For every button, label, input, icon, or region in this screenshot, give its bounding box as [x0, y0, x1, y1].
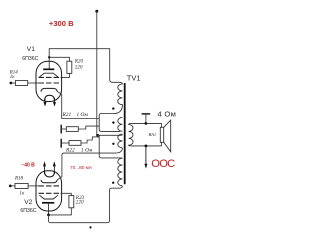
- node +300V terminal dot: [95, 10, 98, 13]
- wire R21 right jog up to around-path: [78, 126, 99, 129]
- wire R14 to V1 grid: [28, 82, 39, 84]
- svg-text:1к: 1к: [19, 192, 25, 197]
- tube V1 cathode arc: [41, 88, 57, 91]
- svg-text:TV1: TV1: [127, 74, 141, 83]
- wire secondary top into speaker: [161, 123, 163, 127]
- speaker BA1 horn: [164, 120, 171, 152]
- tube V2 anode plate bar: [42, 202, 54, 204]
- svg-text:R18: R18: [14, 177, 24, 182]
- wire V2 heater pin right with arrow: [53, 166, 55, 174]
- tube V2 heater arc: [45, 171, 55, 177]
- svg-text:1 Ом: 1 Ом: [77, 112, 89, 118]
- node phase dot S3: [112, 143, 114, 145]
- tube V1 beam-forming plates: [39, 73, 58, 77]
- wire R22 right staircase up to center-tap node: [81, 137, 99, 143]
- wire secondary bottom into speaker: [161, 142, 163, 146]
- wire vertical from center tap down to S4 entry: [99, 135, 122, 158]
- node V1 grid input terminal dot: [10, 82, 13, 85]
- wire +300V vertical down to junction: [96, 11, 98, 135]
- node junction dot secondary bottom: [145, 145, 148, 148]
- tube V2 screen grid g2 dashes: [39, 192, 59, 194]
- wire V1 heater pin left with arrow: [44, 98, 46, 103]
- transformer primary section S3: [118, 134, 123, 148]
- svg-text:ООС: ООС: [151, 158, 175, 170]
- node V2 grid input terminal dot: [9, 185, 12, 188]
- svg-text:220: 220: [76, 199, 84, 205]
- ground chassis bar (R22 left): [60, 139, 62, 148]
- svg-text:70...80 мА: 70...80 мА: [70, 165, 93, 170]
- node phase dot S4: [112, 182, 114, 184]
- wire V2 cathode lead to S3 bottom: [57, 148, 122, 180]
- node phase dot S1: [112, 107, 114, 109]
- wire V1 cathode lead to corner: [57, 91, 99, 118]
- tube V2 beam-forming plates: [39, 195, 58, 199]
- resistor R18: [15, 183, 28, 188]
- wire V2 heater pin left with arrow: [44, 166, 46, 174]
- wire bottom run to transformer S4 bottom: [49, 186, 123, 223]
- svg-text:ВА1: ВА1: [149, 132, 157, 137]
- svg-text:V1: V1: [27, 46, 35, 53]
- svg-text:1к: 1к: [10, 75, 16, 80]
- node stray junction dot below bottom wire: [89, 226, 91, 228]
- tube V2 envelope: [36, 171, 62, 211]
- wire R18 to V2 grid: [28, 185, 38, 187]
- svg-text:V2: V2: [24, 199, 32, 206]
- transformer TV1 core: [124, 83, 126, 184]
- wire V2 g2 to R23: [61, 193, 72, 195]
- tube V2 cathode arc: [41, 180, 57, 183]
- wire input to R18: [10, 185, 15, 187]
- wire OOC feedback stub with arrow: [145, 146, 147, 164]
- svg-text:R21: R21: [62, 112, 72, 118]
- transformer primary section S4 (V2 anode half): [118, 158, 123, 186]
- svg-text:220: 220: [75, 64, 83, 70]
- tube V1 heater arc: [45, 95, 55, 101]
- transformer secondary winding: [129, 123, 162, 145]
- wire V1 anode lead: [48, 63, 50, 70]
- svg-text:4 Ом: 4 Ом: [158, 109, 177, 118]
- node junction dot on tap wire: [96, 134, 99, 137]
- tube V1 envelope: [36, 61, 62, 101]
- node junction dot anode/R20 branch: [48, 56, 50, 58]
- node phase dot S2: [112, 121, 114, 123]
- svg-text:6П36С: 6П36С: [22, 56, 38, 62]
- speaker BA1 box: [160, 127, 163, 142]
- resistor R20: [67, 61, 72, 73]
- tube V1 screen grid g2 dashes: [39, 76, 59, 78]
- tube V1 anode plate bar: [43, 68, 54, 70]
- wire R20 bottom to screen grid V1: [61, 73, 70, 77]
- node junction dot secondary top: [145, 122, 148, 125]
- wire chassis to R22: [61, 142, 69, 144]
- tube V2 control grid g1 dashes: [39, 185, 59, 187]
- resistor R23: [69, 196, 74, 208]
- resistor R22: [69, 141, 81, 146]
- wire secondary top to chassis: [145, 114, 147, 123]
- svg-text:+300 В: +300 В: [49, 19, 74, 28]
- node junction dot V2 anode: [47, 214, 50, 217]
- wire anode rail V1 to transformer top: [49, 49, 109, 80]
- svg-text:−40 В: −40 В: [21, 162, 35, 168]
- wire chassis to R21: [61, 128, 66, 130]
- wire R20 branch from anode: [49, 57, 69, 61]
- wire V2 anode lead: [48, 203, 50, 215]
- wire V1 heater pin right with arrow: [54, 98, 56, 103]
- tube V1 control grid g1 dashes: [39, 82, 59, 84]
- resistor R21: [66, 127, 78, 132]
- wire input to R14: [11, 82, 16, 84]
- transformer primary section S2: [118, 117, 123, 131]
- ground chassis bar (R21 left): [60, 125, 62, 134]
- wire center tap from +300V dot into S3 top: [97, 133, 123, 136]
- svg-text:6П36С: 6П36С: [20, 208, 36, 214]
- transformer primary section S1 (V1 anode half): [99, 80, 122, 132]
- resistor R14: [15, 81, 27, 86]
- ground chassis bar (secondary): [142, 113, 151, 115]
- wire R23 bottom to anode wire: [49, 208, 72, 215]
